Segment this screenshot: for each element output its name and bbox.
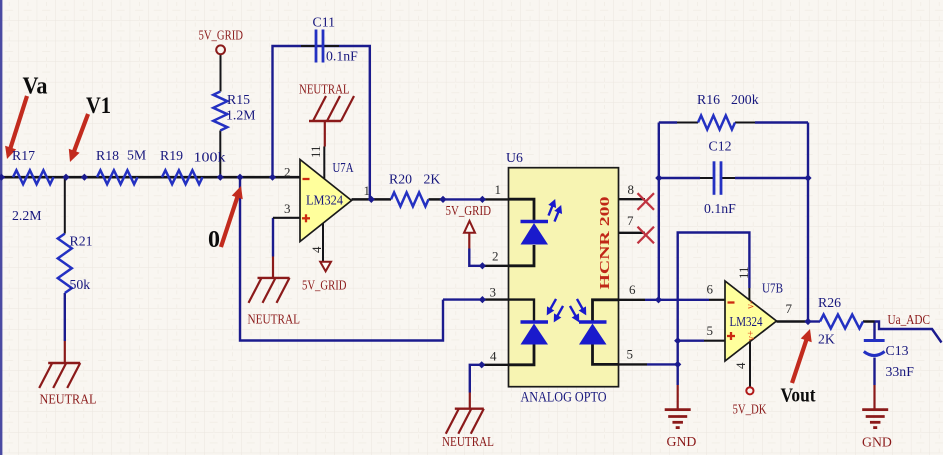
- svg-text:2: 2: [284, 165, 291, 180]
- svg-text:v-: v-: [746, 301, 757, 309]
- svg-text:3: 3: [490, 285, 497, 300]
- svg-text:2: 2: [492, 249, 499, 264]
- svg-text:1.2M: 1.2M: [226, 108, 256, 123]
- svg-text:11: 11: [308, 145, 323, 158]
- svg-text:100k: 100k: [194, 150, 226, 165]
- svg-text:C12: C12: [709, 139, 732, 154]
- svg-text:33nF: 33nF: [886, 364, 915, 379]
- svg-text:R15: R15: [227, 92, 250, 107]
- svg-text:50k: 50k: [70, 277, 91, 292]
- svg-text:200k: 200k: [731, 92, 759, 107]
- svg-text:2K: 2K: [424, 172, 441, 187]
- svg-text:4: 4: [490, 349, 497, 364]
- svg-text:3: 3: [284, 201, 291, 216]
- svg-text:HCNR 200: HCNR 200: [598, 197, 613, 290]
- svg-text:2K: 2K: [818, 332, 835, 347]
- svg-text:1: 1: [364, 183, 371, 198]
- svg-text:5: 5: [627, 347, 634, 362]
- svg-text:V1: V1: [86, 93, 111, 118]
- svg-text:R18: R18: [96, 148, 119, 163]
- svg-text:5: 5: [707, 323, 714, 338]
- svg-text:0: 0: [208, 227, 220, 253]
- svg-text:ANALOG OPTO: ANALOG OPTO: [521, 390, 607, 406]
- svg-text:0.1nF: 0.1nF: [704, 201, 736, 216]
- svg-text:Vout: Vout: [781, 384, 816, 406]
- svg-text:4: 4: [309, 246, 324, 253]
- svg-text:NEUTRAL: NEUTRAL: [299, 82, 350, 97]
- svg-text:C11: C11: [313, 15, 336, 30]
- svg-text:NEUTRAL: NEUTRAL: [40, 392, 97, 407]
- svg-text:GND: GND: [862, 435, 892, 450]
- svg-text:7: 7: [786, 301, 793, 316]
- svg-text:8: 8: [628, 182, 635, 197]
- svg-text:0.1nF: 0.1nF: [326, 49, 358, 64]
- svg-text:R17: R17: [12, 148, 35, 163]
- svg-text:R26: R26: [818, 295, 841, 310]
- svg-text:R19: R19: [160, 148, 183, 163]
- svg-text:C13: C13: [886, 343, 909, 358]
- svg-text:GND: GND: [667, 434, 697, 449]
- svg-text:U6: U6: [506, 150, 523, 165]
- svg-text:1: 1: [495, 182, 502, 197]
- svg-text:LM324: LM324: [306, 193, 343, 208]
- svg-text:5V_GRID: 5V_GRID: [446, 203, 492, 218]
- svg-text:v+: v+: [746, 330, 757, 341]
- svg-text:R16: R16: [697, 92, 720, 107]
- svg-text:4: 4: [733, 362, 748, 369]
- svg-text:R20: R20: [389, 172, 412, 187]
- svg-text:5V_GRID: 5V_GRID: [199, 28, 244, 43]
- svg-text:U7B: U7B: [762, 281, 783, 296]
- svg-text:5V_GRID: 5V_GRID: [302, 278, 347, 293]
- svg-text:Va: Va: [23, 74, 48, 100]
- svg-text:5M: 5M: [127, 148, 146, 163]
- svg-text:11: 11: [736, 266, 751, 279]
- svg-text:NEUTRAL: NEUTRAL: [248, 312, 301, 327]
- svg-text:7: 7: [627, 213, 634, 228]
- svg-text:5V_DK: 5V_DK: [733, 402, 767, 417]
- svg-text:NEUTRAL: NEUTRAL: [442, 434, 494, 449]
- svg-text:R21: R21: [70, 234, 93, 249]
- svg-text:6: 6: [707, 282, 714, 297]
- svg-text:Ua_ADC: Ua_ADC: [888, 312, 931, 327]
- svg-text:2.2M: 2.2M: [12, 208, 42, 223]
- svg-text:U7A: U7A: [333, 160, 354, 175]
- svg-text:LM324: LM324: [730, 314, 763, 329]
- svg-text:6: 6: [629, 282, 636, 297]
